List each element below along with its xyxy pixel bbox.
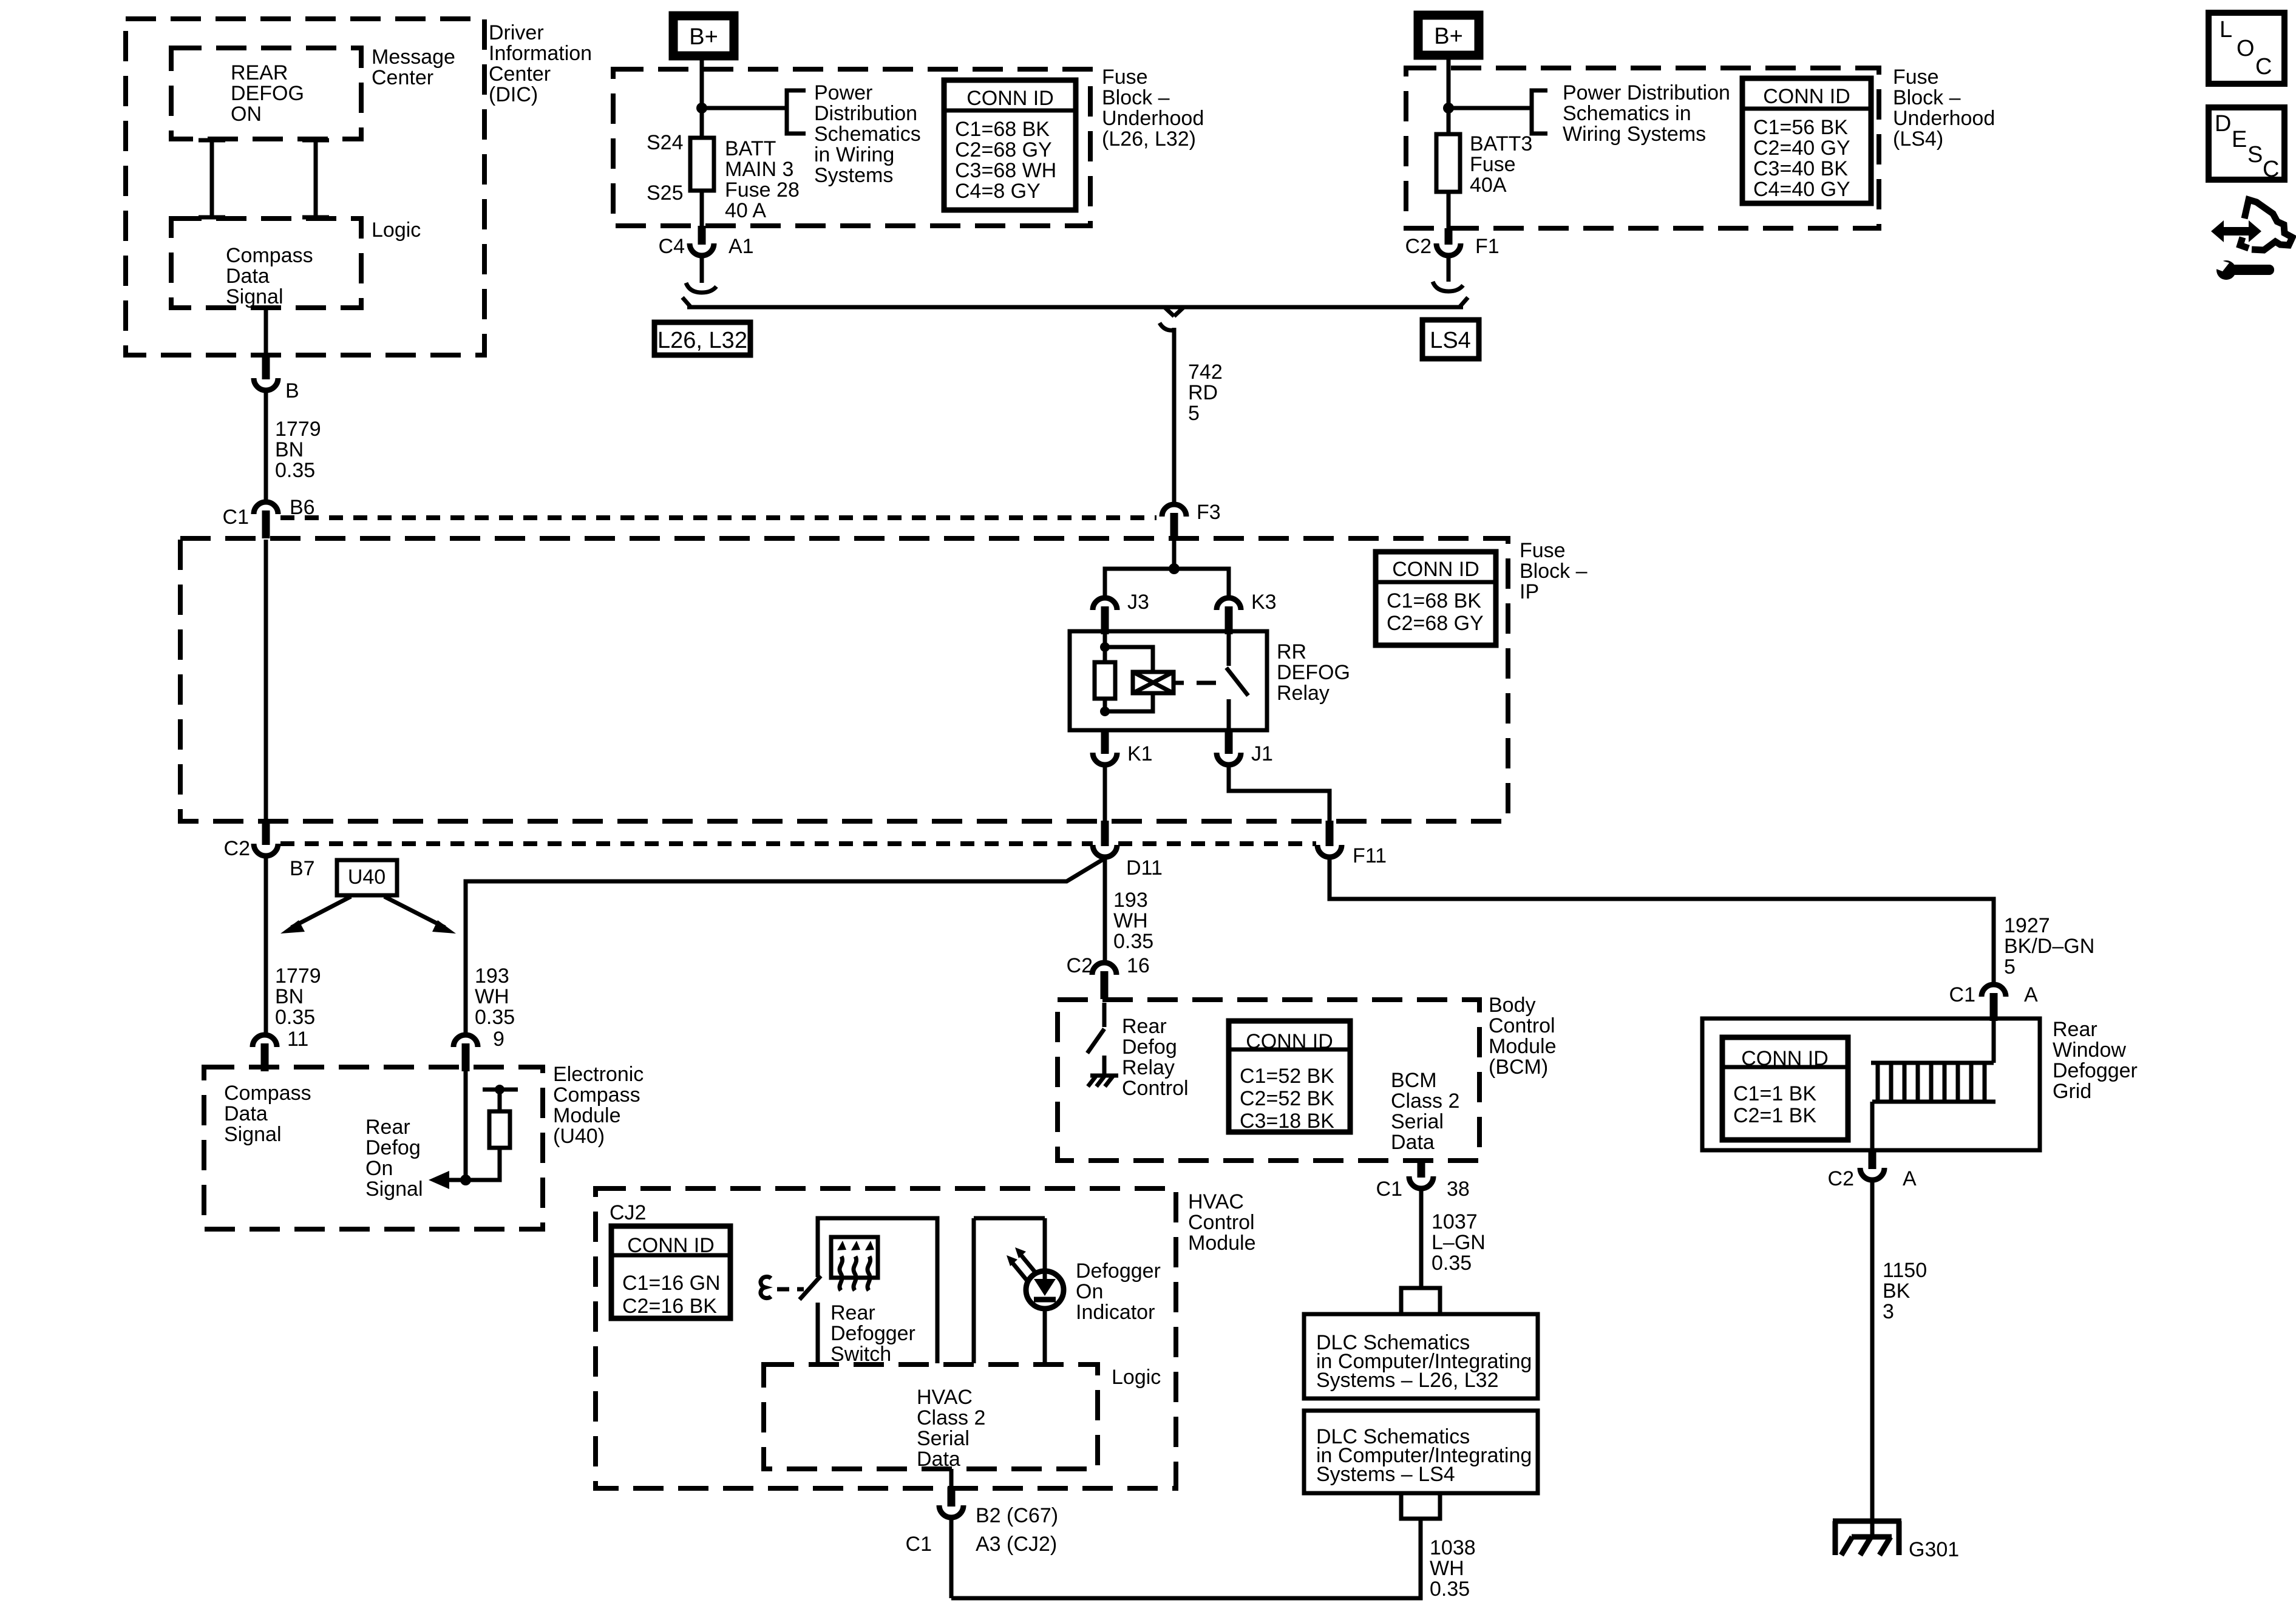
svg-text:A: A bbox=[1903, 1167, 1917, 1190]
function box Logic (DIC) bbox=[171, 219, 361, 308]
svg-text:0.35: 0.35 bbox=[1113, 930, 1153, 953]
svg-text:Serial: Serial bbox=[917, 1427, 970, 1450]
connector C1 A of defogger grid bbox=[1982, 985, 2006, 1021]
svg-text:J3: J3 bbox=[1127, 591, 1149, 614]
svg-text:WH: WH bbox=[1430, 1557, 1464, 1580]
svg-text:F3: F3 bbox=[1197, 501, 1221, 524]
svg-text:40A: 40A bbox=[1470, 174, 1507, 197]
relay switch lower contact bbox=[1227, 699, 1231, 732]
junction dot rear defog on signal bbox=[460, 1175, 471, 1185]
connector C2 16 of BCM bbox=[1092, 963, 1116, 999]
svg-text:On: On bbox=[1076, 1280, 1103, 1303]
connector J1 of RR DEFOG relay bbox=[1217, 731, 1241, 765]
svg-text:Logic: Logic bbox=[1112, 1366, 1161, 1389]
svg-text:Module: Module bbox=[553, 1104, 621, 1127]
wire continuation hook (left) bbox=[686, 283, 716, 293]
svg-text:in Wiring: in Wiring bbox=[814, 143, 894, 166]
grid element symbol bbox=[1871, 998, 1995, 1150]
module box Electronic Compass Module (U40) bbox=[204, 1067, 543, 1229]
relay coil loop wires bbox=[1105, 647, 1153, 711]
svg-text:C3=68 WH: C3=68 WH bbox=[955, 159, 1056, 182]
svg-text:1779: 1779 bbox=[275, 418, 321, 441]
svg-text:5: 5 bbox=[2004, 955, 2016, 978]
switch blade (Rear Defogger Switch) bbox=[800, 1276, 821, 1300]
svg-text:Systems – L26, L32: Systems – L26, L32 bbox=[1316, 1369, 1499, 1392]
svg-text:A1: A1 bbox=[729, 235, 754, 258]
wire pin 9 into module to junction bbox=[464, 1068, 468, 1180]
connector interface dotted line (row 1) bbox=[280, 515, 1156, 520]
BCM driver lower stub bbox=[1102, 1056, 1107, 1076]
svg-text:Signal: Signal bbox=[365, 1178, 423, 1201]
svg-text:Class 2: Class 2 bbox=[917, 1406, 985, 1429]
svg-text:B2 (C67): B2 (C67) bbox=[976, 1504, 1058, 1527]
svg-text:193: 193 bbox=[1113, 889, 1148, 912]
callout arrow U40 right bbox=[384, 897, 456, 934]
svg-text:1038: 1038 bbox=[1430, 1536, 1476, 1559]
svg-text:Power: Power bbox=[814, 81, 872, 104]
svg-text:Control: Control bbox=[1122, 1077, 1189, 1100]
svg-text:HVAC: HVAC bbox=[917, 1386, 973, 1409]
wire B+ to fuse BATT MAIN 3 bbox=[700, 58, 704, 138]
switch contact symbol (CJ2) bbox=[761, 1276, 771, 1298]
function box Message Center bbox=[171, 48, 361, 139]
svg-text:C1: C1 bbox=[1949, 983, 1975, 1006]
svg-text:(LS4): (LS4) bbox=[1893, 127, 1943, 151]
svg-text:O: O bbox=[2237, 36, 2255, 61]
module box Body Control Module (BCM) bbox=[1058, 1000, 1479, 1161]
svg-text:Rear: Rear bbox=[1122, 1015, 1167, 1038]
svg-text:BCM: BCM bbox=[1391, 1069, 1437, 1092]
function box Defogger On Indicator bbox=[974, 1218, 1045, 1363]
svg-text:Serial: Serial bbox=[1391, 1110, 1444, 1133]
wire 16 into BCM bbox=[1102, 1003, 1107, 1027]
svg-text:G301: G301 bbox=[1909, 1538, 1959, 1561]
ground G301 symbol bbox=[1833, 1521, 1901, 1555]
svg-text:C2=68 GY: C2=68 GY bbox=[955, 138, 1052, 161]
svg-text:3: 3 bbox=[1883, 1300, 1894, 1323]
svg-text:DEFOG: DEFOG bbox=[231, 82, 304, 105]
svg-text:C2: C2 bbox=[1828, 1167, 1854, 1190]
svg-text:Grid: Grid bbox=[2053, 1080, 2091, 1103]
svg-text:Fuse: Fuse bbox=[1470, 153, 1516, 176]
heated rear window icon box bbox=[831, 1237, 878, 1278]
wire Logic to B2 connector bbox=[949, 1469, 954, 1488]
callout arrow U40 left bbox=[280, 897, 351, 934]
junction dot relay feed bbox=[1169, 563, 1180, 574]
off-page bracket Power Distribution (right) bbox=[1532, 90, 1547, 134]
junction dot resistor top bbox=[495, 1085, 504, 1094]
svg-text:16: 16 bbox=[1127, 954, 1150, 977]
connector pin 11 of compass module bbox=[253, 1035, 277, 1071]
svg-text:C1: C1 bbox=[1376, 1178, 1402, 1201]
function box Logic (HVAC) bbox=[764, 1364, 1098, 1469]
fuse BATT MAIN 3 Fuse 28 40 A bbox=[690, 138, 714, 191]
svg-text:193: 193 bbox=[475, 964, 509, 988]
resistor inside relay bbox=[1095, 662, 1115, 699]
wire fuse to connector C2 F1 bbox=[1447, 192, 1451, 229]
svg-text:K1: K1 bbox=[1127, 742, 1153, 765]
svg-text:Module: Module bbox=[1489, 1035, 1557, 1058]
svg-text:C4=40 GY: C4=40 GY bbox=[1753, 178, 1850, 201]
svg-text:Data: Data bbox=[1391, 1131, 1435, 1154]
link Message Center to Logic (left) bbox=[199, 139, 225, 219]
junction S24 node dot bbox=[696, 103, 707, 114]
svg-text:C1=68 BK: C1=68 BK bbox=[1387, 589, 1481, 612]
svg-text:0.35: 0.35 bbox=[275, 459, 315, 482]
CONN ID table Fuse Block IP bbox=[1376, 552, 1496, 645]
LED Defogger On Indicator bbox=[1026, 1271, 1064, 1309]
wire resistor to junction bbox=[466, 1148, 500, 1180]
connector C1 38 of BCM bbox=[1409, 1159, 1433, 1188]
svg-text:CONN ID: CONN ID bbox=[1763, 85, 1850, 108]
bus wire 742 RD (horizontal) bbox=[682, 297, 1468, 316]
svg-text:1037: 1037 bbox=[1432, 1210, 1478, 1233]
svg-text:WH: WH bbox=[475, 985, 509, 1008]
svg-text:9: 9 bbox=[493, 1028, 504, 1051]
svg-text:C2: C2 bbox=[1405, 235, 1432, 258]
wire to Power Distribution reference (left) bbox=[702, 106, 787, 110]
svg-text:D: D bbox=[2215, 111, 2231, 137]
LED light arrows bbox=[1007, 1247, 1036, 1281]
svg-text:(L26, L32): (L26, L32) bbox=[1102, 127, 1196, 151]
svg-text:Signal: Signal bbox=[224, 1123, 282, 1146]
connector D11 bbox=[1093, 821, 1117, 857]
svg-text:C2=68 GY: C2=68 GY bbox=[1387, 612, 1484, 635]
internal rail T-bar bbox=[483, 1088, 518, 1092]
svg-text:HVAC: HVAC bbox=[1188, 1190, 1244, 1213]
svg-text:B+: B+ bbox=[1434, 24, 1463, 49]
reference box DLC Schematics L26 L32 bbox=[1304, 1314, 1538, 1398]
svg-text:Control: Control bbox=[1489, 1014, 1555, 1037]
svg-text:CONN ID: CONN ID bbox=[627, 1234, 715, 1257]
svg-text:Electronic: Electronic bbox=[553, 1063, 644, 1086]
wire 1779 BN from B to C1 B6 bbox=[264, 392, 268, 503]
wire relay feed rail bbox=[1105, 569, 1229, 598]
svg-text:Module: Module bbox=[1188, 1232, 1256, 1255]
relay coil to contact dashed link bbox=[1173, 681, 1216, 685]
svg-text:D11: D11 bbox=[1126, 856, 1163, 880]
service icon wrench bbox=[2213, 259, 2274, 280]
wire B+ to fuse BATT3 bbox=[1447, 58, 1451, 134]
svg-text:Center: Center bbox=[489, 63, 551, 86]
link Message Center to Logic (right) bbox=[302, 139, 329, 219]
module box Fuse Block - Underhood (LS4) bbox=[1406, 68, 1879, 228]
svg-text:C: C bbox=[2255, 54, 2272, 80]
svg-text:CONN ID: CONN ID bbox=[1741, 1047, 1829, 1070]
svg-text:C3=40 BK: C3=40 BK bbox=[1753, 157, 1848, 180]
svg-text:J1: J1 bbox=[1251, 742, 1273, 765]
svg-text:C: C bbox=[2263, 157, 2279, 182]
svg-text:BK: BK bbox=[1883, 1280, 1911, 1303]
wire to Power Distribution reference (right) bbox=[1449, 106, 1532, 110]
svg-text:Class 2: Class 2 bbox=[1391, 1090, 1459, 1113]
svg-text:C1: C1 bbox=[223, 506, 249, 529]
svg-text:Signal: Signal bbox=[226, 285, 284, 308]
module box Fuse Block - IP bbox=[180, 538, 1508, 821]
legend box DESC bbox=[2209, 107, 2284, 182]
CONN ID table Fuse Block Underhood (LS4) bbox=[1742, 78, 1871, 203]
svg-text:Block –: Block – bbox=[1893, 86, 1961, 109]
wire continuation hook (right) bbox=[1433, 282, 1463, 291]
svg-text:L–GN: L–GN bbox=[1432, 1231, 1486, 1254]
fuse BATT3 Fuse 40A bbox=[1436, 134, 1460, 192]
junction dot coil top bbox=[1100, 642, 1110, 652]
svg-text:RD: RD bbox=[1188, 381, 1218, 404]
relay RR DEFOG Relay body bbox=[1070, 631, 1267, 730]
svg-text:Fuse: Fuse bbox=[1893, 66, 1939, 89]
CONN ID table BCM bbox=[1229, 1021, 1350, 1133]
svg-text:11: 11 bbox=[287, 1028, 308, 1051]
svg-text:Rear: Rear bbox=[2053, 1018, 2097, 1041]
connector C1 B6 (in-line, DIC harness) bbox=[254, 502, 278, 538]
svg-text:BK/D–GN: BK/D–GN bbox=[2004, 935, 2094, 958]
svg-text:1150: 1150 bbox=[1883, 1259, 1927, 1282]
svg-text:On: On bbox=[365, 1157, 393, 1180]
reference box DLC Schematics LS4 bbox=[1304, 1411, 1538, 1493]
svg-text:Message: Message bbox=[372, 46, 455, 69]
svg-text:Block –: Block – bbox=[1102, 86, 1170, 109]
svg-text:Schematics in: Schematics in bbox=[1563, 102, 1691, 125]
svg-text:Fuse: Fuse bbox=[1520, 539, 1566, 562]
component callout box U40 bbox=[337, 860, 397, 895]
component box Rear Window Defogger Grid bbox=[1702, 1019, 2040, 1150]
svg-text:742: 742 bbox=[1188, 361, 1223, 384]
svg-text:Defog: Defog bbox=[365, 1136, 421, 1159]
wire 193 WH from D11 to pin 9 bbox=[466, 858, 1105, 1035]
svg-text:REAR: REAR bbox=[231, 61, 288, 84]
svg-text:Fuse 28: Fuse 28 bbox=[725, 178, 800, 202]
svg-text:Rear: Rear bbox=[365, 1116, 410, 1139]
svg-text:A: A bbox=[2024, 983, 2038, 1006]
connector K1 of RR DEFOG relay bbox=[1093, 731, 1117, 765]
connector C2 A of defogger grid bbox=[1860, 1149, 1884, 1180]
wire A1 down to bus hook (left) bbox=[700, 256, 704, 283]
svg-text:C2=16 BK: C2=16 BK bbox=[622, 1295, 717, 1318]
svg-text:CONN ID: CONN ID bbox=[966, 87, 1054, 110]
net name box LS4 bbox=[1422, 320, 1479, 359]
svg-text:Wiring Systems: Wiring Systems bbox=[1563, 123, 1706, 146]
svg-text:40 A: 40 A bbox=[725, 199, 766, 222]
svg-text:DEFOG: DEFOG bbox=[1277, 661, 1350, 684]
svg-text:Control: Control bbox=[1188, 1211, 1255, 1234]
wire rail to resistor bbox=[498, 1090, 502, 1111]
wire fuse to connector C4 A1 bbox=[700, 191, 704, 227]
svg-text:Compass: Compass bbox=[224, 1082, 311, 1105]
svg-text:Logic: Logic bbox=[372, 219, 421, 242]
connector pin 9 of compass module bbox=[453, 1035, 478, 1071]
wire F3 to relay feed junction bbox=[1172, 541, 1177, 569]
svg-text:Fuse: Fuse bbox=[1102, 66, 1148, 89]
svg-text:B: B bbox=[285, 379, 299, 402]
svg-text:C2=40 GY: C2=40 GY bbox=[1753, 137, 1850, 160]
ground symbol inside BCM bbox=[1088, 1076, 1118, 1086]
power feed B+ (right) bbox=[1418, 15, 1479, 55]
svg-text:C1: C1 bbox=[906, 1533, 932, 1556]
junction dot coil bottom bbox=[1100, 707, 1110, 716]
module box Fuse Block - Underhood (L26,L32) bbox=[613, 69, 1090, 226]
relay coil box bbox=[1133, 672, 1173, 693]
wire F1 down to bus hook (right) bbox=[1447, 256, 1451, 282]
svg-text:(BCM): (BCM) bbox=[1489, 1056, 1548, 1079]
svg-text:CJ2: CJ2 bbox=[610, 1201, 646, 1224]
svg-text:F1: F1 bbox=[1475, 235, 1500, 258]
connector F3 into Fuse Block IP bbox=[1162, 504, 1186, 541]
svg-text:RR: RR bbox=[1277, 640, 1306, 663]
svg-text:MAIN 3: MAIN 3 bbox=[725, 158, 793, 181]
svg-text:C2=1 BK: C2=1 BK bbox=[1733, 1104, 1816, 1127]
service icon double arrow bbox=[2211, 220, 2261, 242]
connector C2 F1 bbox=[1436, 228, 1461, 256]
svg-text:BN: BN bbox=[275, 438, 304, 461]
svg-text:1927: 1927 bbox=[2004, 914, 2050, 937]
svg-text:Data: Data bbox=[917, 1448, 960, 1471]
relay coil branch wire (left) bbox=[1103, 632, 1107, 711]
wire 1927 BK/D-GN from F11 to C1 A bbox=[1330, 858, 1994, 985]
wire 1150 BK down to G301 bbox=[1870, 1180, 1875, 1536]
svg-text:WH: WH bbox=[1113, 909, 1148, 932]
connector F11 bbox=[1317, 821, 1342, 857]
svg-text:Power Distribution: Power Distribution bbox=[1563, 81, 1730, 104]
svg-text:S24: S24 bbox=[647, 131, 684, 154]
relay switch contact (from K3) bbox=[1227, 632, 1231, 666]
signal arrow (Rear Defog On Signal) bbox=[429, 1171, 466, 1189]
wire 1779 BN from B7 to pin 11 bbox=[264, 857, 268, 1035]
svg-text:C1=56 BK: C1=56 BK bbox=[1753, 116, 1848, 139]
svg-text:C1=52 BK: C1=52 BK bbox=[1240, 1065, 1334, 1088]
connector J3 of RR DEFOG relay bbox=[1093, 598, 1117, 634]
svg-text:IP: IP bbox=[1520, 580, 1539, 603]
svg-text:Systems – LS4: Systems – LS4 bbox=[1316, 1463, 1455, 1486]
svg-text:0.35: 0.35 bbox=[275, 1006, 315, 1029]
CONN ID table Fuse Block Underhood (L26,L32) bbox=[944, 80, 1076, 210]
svg-text:Indicator: Indicator bbox=[1076, 1301, 1155, 1324]
svg-text:Compass: Compass bbox=[226, 244, 313, 267]
resistor in compass module bbox=[489, 1111, 510, 1148]
net name box L26, L32 bbox=[654, 322, 750, 355]
svg-text:Systems: Systems bbox=[814, 164, 893, 187]
svg-text:Defogger: Defogger bbox=[830, 1322, 915, 1345]
legend box LOC bbox=[2209, 13, 2284, 84]
svg-text:Data: Data bbox=[226, 265, 270, 288]
svg-text:BN: BN bbox=[275, 985, 304, 1008]
svg-text:F11: F11 bbox=[1353, 844, 1387, 867]
svg-text:CONN ID: CONN ID bbox=[1392, 558, 1479, 581]
svg-text:C1=1 BK: C1=1 BK bbox=[1733, 1082, 1816, 1105]
wire C1 B6 through IP box down to C2 B7 bbox=[264, 540, 268, 821]
CONN ID table defogger grid bbox=[1722, 1037, 1848, 1140]
svg-text:Compass: Compass bbox=[553, 1083, 640, 1107]
wire 1037 L-GN down to DLC reference bbox=[1419, 1188, 1424, 1287]
svg-text:Defog: Defog bbox=[1122, 1036, 1177, 1059]
svg-text:A3 (CJ2): A3 (CJ2) bbox=[976, 1533, 1057, 1556]
wire 742 RD down to F3 (with break hook) bbox=[1160, 323, 1174, 504]
svg-text:C1=16 GN: C1=16 GN bbox=[622, 1272, 721, 1295]
wire J1 to F11 bbox=[1229, 766, 1330, 821]
svg-text:0.35: 0.35 bbox=[475, 1006, 515, 1029]
svg-text:Window: Window bbox=[2053, 1039, 2126, 1062]
svg-text:Defogger: Defogger bbox=[1076, 1259, 1161, 1283]
wire B2 down to bus join bbox=[949, 1517, 954, 1598]
svg-text:Rear: Rear bbox=[830, 1301, 875, 1324]
module box Driver Information Center (DIC) bbox=[126, 19, 484, 355]
svg-text:B7: B7 bbox=[290, 857, 315, 880]
svg-text:K3: K3 bbox=[1251, 591, 1277, 614]
svg-text:U40: U40 bbox=[348, 866, 385, 889]
svg-text:L: L bbox=[2220, 17, 2232, 42]
svg-text:Schematics: Schematics bbox=[814, 123, 921, 146]
svg-text:BATT3: BATT3 bbox=[1470, 132, 1532, 155]
svg-text:Body: Body bbox=[1489, 994, 1536, 1017]
svg-text:Driver: Driver bbox=[489, 21, 544, 44]
CONN ID table HVAC (CJ2) bbox=[611, 1226, 730, 1318]
connector C2 B7 (in-line) bbox=[254, 821, 278, 856]
component bracket into DLC box (top) bbox=[1401, 1288, 1440, 1314]
wire 193 WH from D11 down to C2 16 bbox=[1103, 858, 1107, 963]
svg-text:C4=8 GY: C4=8 GY bbox=[955, 180, 1041, 203]
switch linkage dashes bbox=[777, 1287, 804, 1292]
svg-text:Center: Center bbox=[372, 66, 433, 89]
svg-text:C2: C2 bbox=[1067, 954, 1093, 977]
svg-text:Underhood: Underhood bbox=[1102, 107, 1204, 130]
module box HVAC Control Module bbox=[596, 1188, 1176, 1488]
svg-text:5: 5 bbox=[1188, 402, 1200, 425]
svg-text:(U40): (U40) bbox=[553, 1125, 605, 1148]
svg-text:Block –: Block – bbox=[1520, 560, 1588, 583]
svg-text:C4: C4 bbox=[659, 235, 685, 258]
connector C4 A1 bbox=[690, 226, 714, 256]
svg-text:CONN ID: CONN ID bbox=[1246, 1030, 1333, 1053]
svg-text:C2: C2 bbox=[224, 837, 250, 860]
svg-text:Underhood: Underhood bbox=[1893, 107, 1995, 130]
relay switch blade bbox=[1226, 668, 1248, 696]
svg-text:B+: B+ bbox=[689, 24, 718, 50]
wire DIC Logic to connector B bbox=[264, 308, 268, 356]
connector K3 of RR DEFOG relay bbox=[1217, 598, 1241, 634]
power feed B+ (left) bbox=[673, 16, 734, 56]
connector interface dotted line (row 2, left) bbox=[280, 841, 1093, 846]
connector B of DIC bbox=[254, 355, 278, 390]
svg-text:0.35: 0.35 bbox=[1432, 1252, 1472, 1275]
svg-text:C2=52 BK: C2=52 BK bbox=[1240, 1087, 1334, 1110]
connector interface dotted line (row 2, middle) bbox=[1118, 841, 1316, 846]
svg-text:Relay: Relay bbox=[1277, 682, 1330, 705]
wire K1 down to D11 bbox=[1103, 766, 1107, 821]
svg-text:ON: ON bbox=[231, 103, 262, 126]
wire 1038 WH from DLC down and left to HVAC bbox=[951, 1519, 1421, 1598]
function box Rear Defogger Switch bbox=[818, 1218, 937, 1363]
svg-text:BATT: BATT bbox=[725, 137, 776, 160]
svg-text:0.35: 0.35 bbox=[1430, 1578, 1470, 1601]
junction node dot (right feed) bbox=[1443, 103, 1454, 114]
svg-text:S25: S25 bbox=[647, 181, 684, 205]
svg-text:Data: Data bbox=[224, 1102, 268, 1125]
svg-text:C1=68 BK: C1=68 BK bbox=[955, 118, 1050, 141]
service icon hand bbox=[2244, 200, 2292, 250]
svg-text:Distribution: Distribution bbox=[814, 102, 917, 125]
svg-text:L26, L32: L26, L32 bbox=[657, 328, 747, 353]
connector B2 (C67) A3 (CJ2) bbox=[939, 1487, 963, 1517]
svg-text:38: 38 bbox=[1447, 1178, 1470, 1201]
svg-text:Information: Information bbox=[489, 42, 592, 65]
component bracket from DLC box (bottom) bbox=[1401, 1493, 1440, 1519]
svg-text:Relay: Relay bbox=[1122, 1056, 1175, 1079]
svg-text:C3=18 BK: C3=18 BK bbox=[1240, 1110, 1334, 1133]
svg-text:E: E bbox=[2232, 127, 2247, 152]
svg-text:1779: 1779 bbox=[275, 964, 321, 988]
heated rear window icon arrows bbox=[837, 1241, 874, 1290]
svg-text:(DIC): (DIC) bbox=[489, 83, 538, 106]
BCM driver switch blade bbox=[1087, 1029, 1104, 1053]
